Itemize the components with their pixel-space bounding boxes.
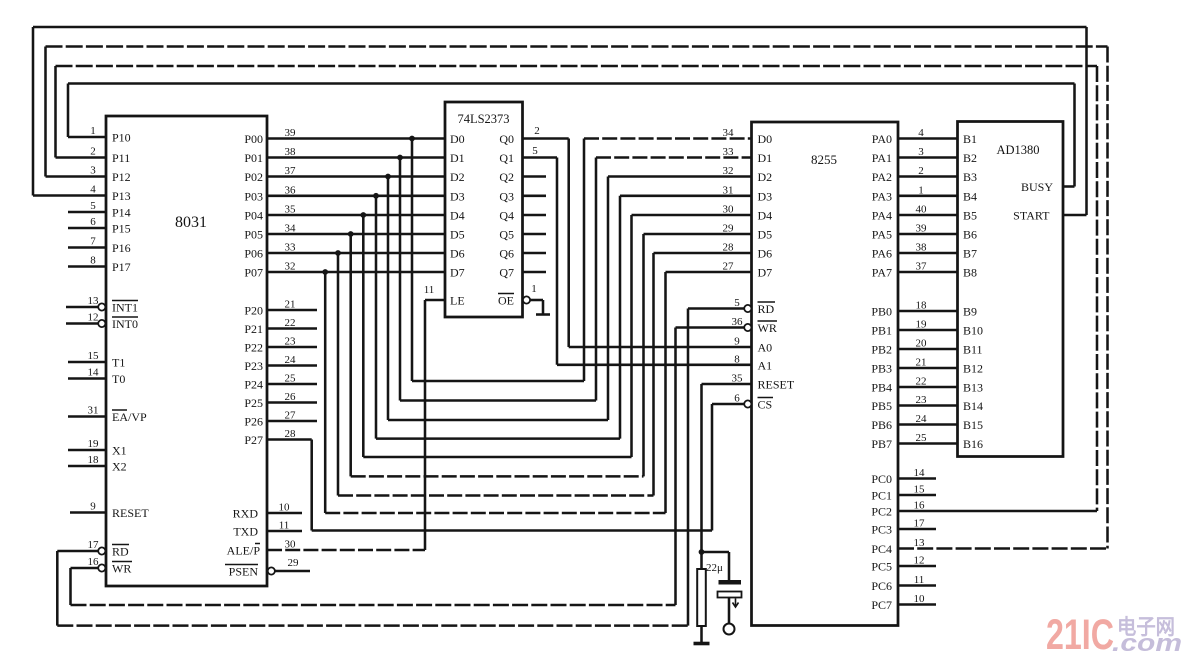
svg-text:RXD: RXD [233, 507, 259, 521]
svg-text:Q4: Q4 [499, 209, 514, 223]
svg-text:5: 5 [734, 297, 740, 309]
svg-text:18: 18 [916, 300, 928, 312]
svg-text:D6: D6 [758, 247, 773, 261]
svg-text:29: 29 [723, 223, 735, 235]
svg-text:RESET: RESET [112, 506, 149, 520]
svg-text:T1: T1 [112, 356, 125, 370]
svg-text:PB4: PB4 [871, 381, 892, 395]
svg-text:1: 1 [531, 283, 537, 295]
svg-text:D4: D4 [450, 209, 465, 223]
svg-text:9: 9 [90, 501, 96, 513]
svg-text:B12: B12 [963, 362, 983, 376]
svg-text:PA5: PA5 [872, 228, 892, 242]
svg-text:74LS2373: 74LS2373 [457, 112, 509, 126]
svg-text:PB3: PB3 [871, 362, 892, 376]
svg-text:Q1: Q1 [499, 151, 514, 165]
svg-text:4: 4 [918, 127, 924, 139]
svg-text:A1: A1 [758, 358, 773, 372]
svg-text:P15: P15 [112, 222, 131, 236]
svg-text:15: 15 [914, 484, 926, 496]
svg-text:Q2: Q2 [499, 170, 514, 184]
svg-text:PA3: PA3 [872, 189, 892, 203]
svg-text:22: 22 [285, 317, 296, 329]
svg-text:35: 35 [732, 373, 744, 385]
svg-text:RESET: RESET [758, 378, 795, 392]
svg-text:25: 25 [285, 373, 297, 385]
svg-text:B16: B16 [963, 437, 983, 451]
svg-text:29: 29 [288, 557, 300, 569]
svg-text:PC5: PC5 [871, 560, 892, 574]
svg-text:P23: P23 [244, 359, 263, 373]
svg-text:RD: RD [112, 545, 129, 559]
svg-text:D2: D2 [450, 170, 465, 184]
svg-text:16: 16 [88, 556, 100, 568]
svg-text:31: 31 [88, 405, 99, 417]
svg-text:P20: P20 [244, 304, 263, 318]
svg-text:B9: B9 [963, 305, 977, 319]
svg-text:PA2: PA2 [872, 170, 892, 184]
svg-text:PA7: PA7 [872, 266, 892, 280]
svg-text:D6: D6 [450, 247, 465, 261]
svg-text:5: 5 [532, 145, 538, 157]
svg-text:10: 10 [914, 593, 926, 605]
svg-text:D5: D5 [450, 228, 465, 242]
svg-text:25: 25 [916, 432, 928, 444]
svg-text:B5: B5 [963, 209, 977, 223]
svg-text:ALE/P: ALE/P [227, 544, 261, 558]
svg-text:17: 17 [914, 518, 926, 530]
svg-text:32: 32 [285, 261, 296, 273]
svg-text:30: 30 [723, 204, 735, 216]
svg-text:P24: P24 [244, 378, 263, 392]
svg-text:B13: B13 [963, 381, 983, 395]
svg-text:7: 7 [90, 236, 96, 248]
svg-text:28: 28 [723, 242, 735, 254]
svg-text:B10: B10 [963, 324, 983, 338]
svg-text:AD1380: AD1380 [996, 143, 1039, 157]
svg-text:P05: P05 [244, 228, 263, 242]
svg-text:PB7: PB7 [871, 437, 892, 451]
svg-text:P01: P01 [244, 151, 263, 165]
svg-text:PSEN: PSEN [229, 565, 259, 579]
svg-text:B1: B1 [963, 132, 977, 146]
svg-text:WR: WR [112, 562, 131, 576]
svg-text:35: 35 [285, 204, 297, 216]
svg-text:23: 23 [285, 336, 297, 348]
svg-text:23: 23 [916, 394, 928, 406]
svg-text:B8: B8 [963, 266, 977, 280]
svg-text:36: 36 [285, 184, 297, 196]
svg-text:2: 2 [534, 125, 540, 137]
svg-text:RD: RD [758, 302, 775, 316]
svg-text:3: 3 [90, 165, 96, 177]
svg-text:2: 2 [90, 146, 96, 158]
svg-text:13: 13 [88, 295, 100, 307]
svg-text:36: 36 [732, 316, 744, 328]
svg-text:18: 18 [88, 454, 100, 466]
svg-text:14: 14 [88, 367, 100, 379]
svg-text:P04: P04 [244, 209, 263, 223]
svg-text:27: 27 [723, 261, 735, 273]
svg-text:17: 17 [88, 539, 100, 551]
svg-text:8: 8 [90, 255, 96, 267]
svg-text:X2: X2 [112, 460, 127, 474]
svg-text:B11: B11 [963, 343, 983, 357]
svg-text:32: 32 [723, 165, 734, 177]
svg-text:OE: OE [498, 294, 514, 308]
svg-text:P17: P17 [112, 260, 131, 274]
svg-text:P14: P14 [112, 206, 131, 220]
svg-text:11: 11 [424, 284, 435, 296]
svg-text:BUSY: BUSY [1021, 180, 1053, 194]
svg-text:TXD: TXD [233, 525, 258, 539]
svg-text:PC4: PC4 [871, 542, 892, 556]
svg-text:B7: B7 [963, 247, 977, 261]
svg-text:8: 8 [734, 353, 740, 365]
svg-text:22μ: 22μ [706, 562, 723, 574]
svg-text:START: START [1013, 209, 1050, 223]
svg-text:6: 6 [734, 393, 740, 405]
svg-text:21: 21 [916, 357, 927, 369]
svg-text:8031: 8031 [175, 214, 207, 231]
svg-text:12: 12 [914, 555, 925, 567]
svg-text:Q7: Q7 [499, 266, 514, 280]
svg-text:PA0: PA0 [872, 132, 892, 146]
svg-text:D0: D0 [758, 132, 773, 146]
svg-text:26: 26 [285, 391, 297, 403]
svg-text:D1: D1 [450, 151, 465, 165]
svg-text:CS: CS [758, 398, 773, 412]
svg-text:D7: D7 [450, 266, 465, 280]
svg-text:1: 1 [90, 125, 96, 137]
svg-text:B15: B15 [963, 418, 983, 432]
svg-text:PB0: PB0 [871, 305, 892, 319]
svg-text:WR: WR [758, 321, 777, 335]
svg-text:D4: D4 [758, 209, 773, 223]
svg-text:Q3: Q3 [499, 189, 514, 203]
svg-text:11: 11 [914, 574, 925, 586]
svg-text:PA6: PA6 [872, 247, 892, 261]
svg-text:P12: P12 [112, 170, 131, 184]
svg-text:P13: P13 [112, 189, 131, 203]
svg-text:34: 34 [285, 223, 297, 235]
svg-text:B2: B2 [963, 151, 977, 165]
svg-text:3: 3 [918, 146, 924, 158]
svg-text:INT1: INT1 [112, 301, 138, 315]
svg-text:X1: X1 [112, 444, 127, 458]
svg-text:P26: P26 [244, 415, 263, 429]
svg-text:24: 24 [916, 413, 928, 425]
svg-text:PC1: PC1 [871, 489, 892, 503]
svg-text:38: 38 [285, 146, 297, 158]
svg-text:21IC: 21IC [1046, 611, 1114, 659]
svg-text:39: 39 [285, 127, 297, 139]
svg-text:PC0: PC0 [871, 472, 892, 486]
svg-text:34: 34 [723, 127, 735, 139]
svg-text:37: 37 [916, 261, 928, 273]
svg-text:T0: T0 [112, 372, 125, 386]
svg-text:P03: P03 [244, 189, 263, 203]
svg-text:B4: B4 [963, 189, 977, 203]
svg-text:B6: B6 [963, 228, 977, 242]
svg-text:2: 2 [918, 165, 924, 177]
svg-text:P27: P27 [244, 433, 263, 447]
svg-text:14: 14 [914, 467, 926, 479]
svg-text:EA/VP: EA/VP [112, 410, 147, 424]
svg-text:39: 39 [916, 223, 928, 235]
svg-text:22: 22 [916, 376, 927, 388]
svg-text:20: 20 [916, 338, 928, 350]
svg-text:40: 40 [916, 204, 928, 216]
svg-text:D5: D5 [758, 228, 773, 242]
svg-text:PB6: PB6 [871, 418, 892, 432]
svg-text:Q6: Q6 [499, 247, 514, 261]
svg-text:PA1: PA1 [872, 151, 892, 165]
svg-text:D3: D3 [758, 189, 773, 203]
svg-text:D1: D1 [758, 151, 773, 165]
svg-text:Q5: Q5 [499, 228, 514, 242]
svg-text:P25: P25 [244, 396, 263, 410]
svg-text:PC2: PC2 [871, 505, 892, 519]
svg-text:4: 4 [90, 184, 96, 196]
svg-text:21: 21 [285, 299, 296, 311]
svg-text:PB2: PB2 [871, 343, 892, 357]
svg-text:PC6: PC6 [871, 579, 892, 593]
svg-text:38: 38 [916, 242, 928, 254]
svg-text:6: 6 [90, 216, 96, 228]
svg-text:1: 1 [918, 184, 924, 196]
svg-text:24: 24 [285, 354, 297, 366]
svg-text:P07: P07 [244, 266, 263, 280]
svg-text:B14: B14 [963, 399, 983, 413]
svg-text:D7: D7 [758, 266, 773, 280]
svg-text:10: 10 [279, 502, 291, 514]
svg-text:PB5: PB5 [871, 399, 892, 413]
svg-text:INT0: INT0 [112, 317, 138, 331]
svg-text:PB1: PB1 [871, 324, 892, 338]
svg-text:P22: P22 [244, 341, 263, 355]
svg-text:28: 28 [285, 428, 297, 440]
svg-text:P00: P00 [244, 132, 263, 146]
svg-text:PA4: PA4 [872, 209, 892, 223]
svg-text:15: 15 [88, 350, 100, 362]
svg-text:Q0: Q0 [499, 132, 514, 146]
svg-text:16: 16 [914, 500, 926, 512]
svg-text:37: 37 [285, 165, 297, 177]
svg-text:D0: D0 [450, 132, 465, 146]
svg-text:B3: B3 [963, 170, 977, 184]
svg-text:PC3: PC3 [871, 523, 892, 537]
svg-text:A0: A0 [758, 341, 773, 355]
svg-text:12: 12 [88, 312, 99, 324]
svg-text:D2: D2 [758, 170, 773, 184]
svg-text:11: 11 [279, 520, 290, 532]
svg-text:19: 19 [88, 438, 100, 450]
svg-text:5: 5 [90, 200, 96, 212]
svg-text:P02: P02 [244, 170, 263, 184]
svg-text:PC7: PC7 [871, 598, 892, 612]
svg-text:P21: P21 [244, 322, 263, 336]
svg-text:33: 33 [723, 146, 735, 158]
svg-text:9: 9 [734, 336, 740, 348]
svg-text:.com: .com [1112, 630, 1182, 657]
svg-text:P10: P10 [112, 131, 131, 145]
svg-text:13: 13 [914, 537, 926, 549]
svg-text:27: 27 [285, 410, 297, 422]
svg-text:30: 30 [285, 539, 297, 551]
svg-text:8255: 8255 [811, 152, 837, 167]
svg-text:D3: D3 [450, 189, 465, 203]
svg-text:P06: P06 [244, 247, 263, 261]
svg-text:LE: LE [450, 294, 465, 308]
svg-text:33: 33 [285, 242, 297, 254]
svg-text:19: 19 [916, 319, 928, 331]
svg-text:P16: P16 [112, 241, 131, 255]
svg-text:P11: P11 [112, 151, 130, 165]
svg-text:31: 31 [723, 184, 734, 196]
